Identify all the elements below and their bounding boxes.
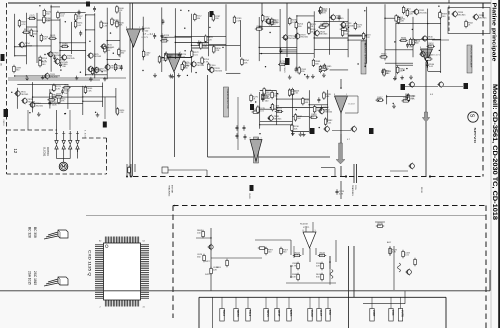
svg-text:10K: 10K (323, 110, 327, 112)
svg-text:10K: 10K (320, 26, 324, 28)
svg-text:SRCH: SRCH (236, 310, 240, 317)
svg-text:SLCO31: SLCO31 (43, 147, 46, 157)
svg-text:FD IN: FD IN (420, 187, 422, 193)
svg-text:8: 8 (303, 230, 304, 232)
svg-text:2SC945: 2SC945 (274, 119, 283, 121)
svg-text:2SC945: 2SC945 (67, 58, 76, 60)
svg-text:47K: 47K (409, 47, 413, 49)
svg-text:TRACKING SERVO AMP: TRACKING SERVO AMP (363, 42, 366, 67)
svg-text:IC 173: IC 173 (142, 37, 149, 39)
svg-text:S: S (469, 114, 475, 118)
svg-text:2.2K: 2.2K (207, 39, 212, 41)
svg-text:TRACKING: TRACKING (351, 185, 354, 196)
svg-text:2SC 1815: 2SC 1815 (33, 271, 37, 285)
svg-text:XLAT: XLAT (319, 310, 323, 317)
svg-text:MIRR: MIRR (372, 310, 376, 317)
svg-text:10K: 10K (277, 111, 281, 113)
svg-text:CLOK: CLOK (310, 310, 314, 317)
svg-text:4.7K: 4.7K (56, 89, 61, 91)
svg-text:2.2K: 2.2K (161, 60, 166, 62)
svg-text:4.7K: 4.7K (292, 265, 297, 267)
svg-text:Modell: CD-3561, CD-2030 TC, C: Modell: CD-3561, CD-2030 TC, CD-1018 (491, 84, 498, 221)
svg-text:22K: 22K (357, 27, 361, 29)
svg-text:1: 1 (139, 27, 140, 29)
svg-text:4.7K: 4.7K (365, 37, 370, 39)
svg-text:CN241: CN241 (283, 67, 285, 74)
svg-text:22K: 22K (244, 63, 248, 65)
svg-text:1: 1 (261, 138, 262, 140)
svg-text:TRACKING: TRACKING (167, 185, 170, 197)
svg-text:22K: 22K (274, 96, 278, 98)
svg-text:IC 172: IC 172 (349, 104, 356, 106)
svg-text:2SC945: 2SC945 (99, 71, 108, 73)
svg-text:MUTE: MUTE (401, 310, 405, 318)
svg-text:2SC945: 2SC945 (479, 18, 488, 20)
svg-text:2SC945: 2SC945 (458, 15, 467, 17)
svg-text:0.7 — 0.4: 0.7 — 0.4 (143, 34, 154, 36)
svg-text:servo: servo (473, 128, 477, 144)
svg-text:MOTOR: MOTOR (170, 185, 172, 194)
svg-text:47K: 47K (61, 101, 65, 103)
svg-text:CXD 1135 Q: CXD 1135 Q (87, 250, 91, 276)
svg-text:4.7K: 4.7K (321, 12, 326, 14)
svg-text:47K: 47K (323, 24, 327, 26)
svg-text:2SC945: 2SC945 (324, 112, 333, 114)
svg-text:2SC945: 2SC945 (419, 12, 428, 14)
svg-text:47K: 47K (381, 56, 385, 58)
svg-text:22K: 22K (50, 38, 54, 40)
svg-text:1: 1 (346, 94, 347, 96)
svg-text:TRAVERSE MOTOR: TRAVERSE MOTOR (226, 88, 229, 109)
svg-text:2SC945: 2SC945 (35, 105, 44, 107)
svg-text:IC 171: IC 171 (434, 55, 441, 57)
svg-text:IC 171: IC 171 (303, 227, 310, 229)
svg-text:47K: 47K (295, 255, 299, 257)
svg-text:2SC945: 2SC945 (346, 26, 355, 28)
svg-text:22K: 22K (401, 40, 405, 42)
svg-text:ASY: ASY (387, 241, 392, 244)
svg-text:8: 8 (334, 94, 335, 96)
svg-text:10K: 10K (119, 25, 123, 27)
svg-text:2SC945: 2SC945 (110, 68, 119, 70)
svg-text:4556: 4556 (391, 310, 395, 316)
svg-text:4.7K: 4.7K (339, 193, 344, 195)
svg-text:8: 8 (250, 138, 251, 140)
svg-text:4.7K: 4.7K (321, 68, 326, 70)
svg-text:10K: 10K (294, 129, 298, 131)
svg-text:MOTOR: MOTOR (46, 147, 49, 156)
svg-text:CN151: CN151 (2, 120, 4, 127)
svg-text:BC 308: BC 308 (33, 227, 37, 238)
svg-text:6 - 8 4 9: 6 - 8 4 9 (84, 130, 86, 138)
svg-text:DATA: DATA (289, 310, 293, 317)
svg-text:100K: 100K (280, 64, 286, 66)
svg-text:Platine principale: Platine principale (491, 3, 497, 62)
svg-text:47K: 47K (64, 87, 68, 89)
svg-text:22K: 22K (316, 265, 320, 267)
svg-text:22K: 22K (119, 10, 123, 12)
svg-text:COIL: COIL (354, 185, 356, 191)
svg-text:SENS: SENS (266, 310, 270, 317)
svg-text:8: 8 (420, 47, 421, 49)
svg-text:4.7K: 4.7K (21, 24, 26, 26)
svg-text:2SC945: 2SC945 (93, 56, 102, 58)
svg-text:FOCUS SERVO AMP: FOCUS SERVO AMP (469, 46, 472, 68)
svg-text:2SC945: 2SC945 (426, 55, 435, 57)
svg-text:2.2K: 2.2K (236, 20, 241, 22)
svg-text:2SC945: 2SC945 (21, 94, 30, 96)
svg-text:1: 1 (315, 230, 316, 232)
svg-text:RC4558: RC4558 (300, 224, 308, 226)
svg-text:TGL2: TGL2 (248, 310, 252, 317)
svg-text:2.2K: 2.2K (103, 25, 108, 27)
svg-text:CN331: CN331 (248, 193, 250, 200)
svg-text:2.2K: 2.2K (87, 91, 92, 93)
svg-text:2SA 1015: 2SA 1015 (28, 271, 32, 285)
svg-text:10K: 10K (24, 31, 28, 33)
svg-text:2SC945: 2SC945 (107, 47, 116, 49)
svg-text:FOK: FOK (328, 310, 332, 316)
svg-text:4.7K: 4.7K (204, 61, 209, 63)
svg-text:2SC945: 2SC945 (196, 65, 205, 67)
svg-text:100K: 100K (52, 105, 58, 107)
svg-text:22K: 22K (30, 17, 34, 19)
svg-text:2.2K: 2.2K (46, 21, 51, 23)
svg-text:22K: 22K (43, 39, 47, 41)
svg-text:8: 8 (126, 27, 127, 29)
svg-text:TE34: TE34 (222, 310, 226, 317)
svg-text:10K: 10K (384, 73, 388, 75)
svg-text:2.2K: 2.2K (426, 58, 431, 60)
svg-text:XRST: XRST (277, 310, 281, 317)
svg-text:22K: 22K (399, 71, 403, 73)
svg-text:2SC945: 2SC945 (25, 45, 34, 47)
svg-text:47K: 47K (77, 18, 81, 20)
svg-text:22K: 22K (409, 14, 413, 16)
svg-text:2.2K: 2.2K (409, 98, 414, 100)
svg-text:2SC945: 2SC945 (288, 38, 297, 40)
svg-text:2.2K: 2.2K (62, 46, 67, 48)
svg-text:10K: 10K (292, 276, 296, 278)
svg-text:BC 328: BC 328 (28, 227, 32, 238)
svg-text:22K: 22K (216, 50, 220, 52)
svg-text:2.2K: 2.2K (119, 112, 124, 114)
svg-text:2.2K: 2.2K (203, 46, 208, 48)
svg-text:22K: 22K (213, 269, 217, 271)
svg-text:2SC945: 2SC945 (214, 71, 223, 73)
svg-text:2SC945: 2SC945 (300, 37, 309, 39)
svg-text:12: 12 (13, 149, 18, 154)
svg-text:2SC945: 2SC945 (320, 34, 329, 36)
